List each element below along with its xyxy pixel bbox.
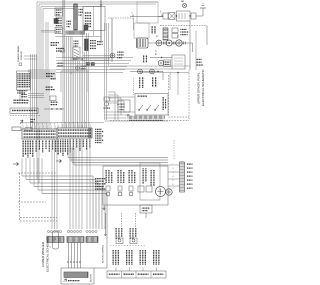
label left pair xyxy=(57,63,64,64)
svg-text:TRANSFORMER: TRANSFORMER xyxy=(17,45,20,62)
component dark U2 xyxy=(84,25,88,30)
svg-text:5: 5 xyxy=(73,123,74,125)
component cluster D3 labels xyxy=(129,170,130,183)
svg-text:MOTOR CONTROL: MOTOR CONTROL xyxy=(103,244,105,263)
component dark small U1 side xyxy=(54,19,58,24)
svg-text:M: M xyxy=(156,36,158,38)
terminal box S3 xyxy=(191,13,196,19)
connector hatch under K2 xyxy=(72,58,82,61)
start capacitor canister xyxy=(137,38,149,48)
arrow symbol P3 xyxy=(13,162,19,165)
timer pin list U2 xyxy=(84,12,91,13)
mark small xyxy=(19,63,22,66)
component inline small xyxy=(60,49,64,52)
labels inner box xyxy=(143,168,144,184)
svg-text:1: 1 xyxy=(57,123,58,125)
bracket connector xyxy=(53,231,59,249)
wires B2 to motor xyxy=(68,243,70,269)
wire verticals right of U2 xyxy=(108,23,110,66)
control box A1 xyxy=(135,94,168,116)
wire lattice lower horizontals xyxy=(105,112,169,121)
svg-text:5: 5 xyxy=(38,124,39,126)
pin labels J8 right xyxy=(187,164,193,165)
svg-text:120/240V: 120/240V xyxy=(21,50,23,60)
label rows above relay box xyxy=(13,100,29,101)
relay box K1 dotted xyxy=(137,2,158,23)
wire loop top 2 left leg xyxy=(38,4,40,183)
terminal drop lines xyxy=(115,268,117,272)
motor box M1 dotted xyxy=(134,23,149,38)
pin circles B1 xyxy=(47,230,49,232)
motor control wire xyxy=(94,194,107,269)
wire vertical pair x104 xyxy=(104,23,106,58)
label cluster left mid B xyxy=(45,87,53,88)
label right of DS3 xyxy=(81,66,87,67)
text block right bus xyxy=(95,178,106,179)
wire mid horizontal bus xyxy=(83,55,110,57)
wire dashed drops xyxy=(122,213,136,228)
sensor S5 xyxy=(116,238,123,244)
pin tick K1 right xyxy=(161,15,163,17)
wire mid horizontals long xyxy=(56,57,133,59)
svg-text:4: 4 xyxy=(69,123,70,125)
svg-text:3: 3 xyxy=(65,123,66,125)
svg-text:2: 2 xyxy=(173,168,174,170)
svg-text:5: 5 xyxy=(173,180,174,182)
pin labels below P4 dark xyxy=(58,139,59,155)
component cluster D1 labels xyxy=(106,170,107,183)
arrow symbol P4 xyxy=(56,159,62,162)
svg-text:3: 3 xyxy=(30,124,31,126)
label right of B5 xyxy=(196,59,202,60)
pin circles B3 xyxy=(86,230,88,232)
wire dashed y173 xyxy=(18,172,57,174)
marks right of arrow xyxy=(30,119,35,120)
small comps inner xyxy=(138,186,144,192)
pin labels below P3 dark xyxy=(23,140,24,157)
label rows x50 y42 xyxy=(50,42,59,43)
wire junction row xyxy=(44,108,64,110)
lamp L1 xyxy=(138,69,143,74)
relay K2 contacts xyxy=(73,47,80,58)
svg-text:7: 7 xyxy=(81,123,82,125)
inline connector c xyxy=(184,42,186,45)
svg-text:FAN: FAN xyxy=(181,0,185,3)
svg-text:2: 2 xyxy=(61,123,62,125)
labels mid cols xyxy=(143,55,144,63)
svg-text:9: 9 xyxy=(54,124,55,126)
pin circles B2 xyxy=(67,230,69,232)
dryer connector J8 strip xyxy=(180,162,185,192)
wire vertical x101 main xyxy=(100,0,102,43)
wire loop top 4 left leg xyxy=(42,9,44,130)
label top right of U2 xyxy=(79,9,84,10)
wire bus upper to dryer box xyxy=(68,157,168,159)
timer pin list U1 xyxy=(55,18,62,19)
wire loop top 4 xyxy=(43,8,75,10)
hatch end of strip P4 xyxy=(89,128,92,138)
junction blobs xyxy=(86,63,90,66)
svg-text:ELECTRICAL SCHEMATIC: ELECTRICAL SCHEMATIC xyxy=(201,68,205,106)
connector block bottom xyxy=(66,31,85,35)
svg-text:F: F xyxy=(160,11,161,13)
component D3 xyxy=(129,186,133,191)
wire J8 links xyxy=(168,165,180,186)
labels under lamps xyxy=(139,77,140,88)
wire loop top 3 left leg xyxy=(40,7,42,130)
legend lower rows xyxy=(17,90,27,91)
label 1K xyxy=(67,21,72,22)
wire y16.5 through K1 xyxy=(130,16,163,18)
svg-text:8: 8 xyxy=(50,124,51,126)
timer box U2 xyxy=(83,7,105,31)
label pair M1 xyxy=(152,26,153,34)
label in A1 right xyxy=(163,97,164,110)
wire vertical x207 xyxy=(206,26,208,46)
wire transformer links xyxy=(24,56,37,59)
wire cabinet top links xyxy=(140,73,189,96)
svg-text:6: 6 xyxy=(77,123,78,125)
sensor S6 xyxy=(130,238,137,244)
svg-text:6: 6 xyxy=(173,184,174,186)
wire left bundle inner xyxy=(44,70,46,129)
dryer section box xyxy=(103,166,168,205)
wire vertical x190 xyxy=(189,21,191,70)
wire dashed left edge xyxy=(19,173,21,221)
wire crossing h group A xyxy=(28,69,56,71)
arrow below dryer box xyxy=(103,206,106,210)
component circle right mid xyxy=(104,97,110,101)
wire y71.5 with lamps xyxy=(130,72,163,81)
wire crossing h group B xyxy=(28,93,44,95)
pin labels below P4 light xyxy=(73,139,74,150)
indicator lamp DS3 xyxy=(75,66,79,70)
cabinet dashed border right xyxy=(168,75,170,117)
timer box U1 xyxy=(55,8,63,16)
legend text block xyxy=(17,73,30,74)
svg-text:8: 8 xyxy=(85,123,86,125)
inline connector a xyxy=(164,42,166,45)
antenna symbol xyxy=(200,4,206,9)
motor winding M2 xyxy=(156,40,162,46)
wire dashed x133.5 down xyxy=(133,78,135,95)
dash marks under sensors xyxy=(110,245,146,247)
wire loop top 3 xyxy=(41,6,101,8)
svg-text:2: 2 xyxy=(26,124,27,126)
wire into control left xyxy=(108,97,135,103)
wire corner lattice xyxy=(108,92,124,120)
cabinet dashed bottom xyxy=(110,120,189,122)
svg-text:6: 6 xyxy=(42,124,43,126)
fuse box F1 xyxy=(163,13,168,19)
wire box bottoms line xyxy=(55,36,101,38)
svg-text:BK-10: BK-10 xyxy=(156,50,158,55)
compressor relay label box xyxy=(10,108,38,114)
sensor S5 labels xyxy=(116,228,117,239)
component cluster D2 labels xyxy=(118,170,119,183)
svg-text:7: 7 xyxy=(173,188,174,190)
thermostat box S2 xyxy=(177,11,191,21)
legend block right of P4 xyxy=(95,129,102,130)
svg-text:7: 7 xyxy=(46,124,47,126)
component marks bottom left xyxy=(12,127,21,131)
wire vertical x196 xyxy=(195,31,197,70)
pin numbers above strip P3 xyxy=(22,126,24,130)
wire bundle to block B3 xyxy=(86,138,88,229)
wire horizontal dashed y18 xyxy=(108,17,134,19)
wire dashed under relay box xyxy=(10,115,40,117)
component D1 xyxy=(106,186,110,191)
wire horizontals y30-32 left xyxy=(41,31,56,33)
connector strip J1 xyxy=(85,39,89,51)
relay box TD xyxy=(164,60,171,67)
heater ladder R1 xyxy=(163,28,168,40)
wire vertical x133.5 xyxy=(133,18,135,30)
svg-text:1: 1 xyxy=(132,13,133,15)
pin circles above strip P4 xyxy=(57,125,59,129)
tiny labels under hatch xyxy=(129,120,163,121)
label cluster left mid A xyxy=(46,73,55,74)
wire dashed y25.5 xyxy=(160,25,207,27)
door switch box S4 xyxy=(118,100,130,112)
pin labels below P3 light xyxy=(36,140,37,152)
blower icon top xyxy=(182,3,186,7)
component small box mid xyxy=(50,96,56,101)
terminal hatch under A1 xyxy=(128,116,164,120)
box below dryer xyxy=(140,205,152,213)
svg-text:4: 4 xyxy=(34,124,35,126)
wire loop top 1 xyxy=(37,1,158,3)
wire vertical pair x104 lower xyxy=(105,58,107,120)
stacked boxes R2 xyxy=(172,28,178,33)
sensor S6 labels xyxy=(130,228,131,239)
switch X box S1 xyxy=(169,13,176,20)
drive motor circle xyxy=(156,187,166,197)
conn block B2 xyxy=(67,237,84,243)
connector ladder J2 xyxy=(74,4,77,30)
wire bundle strip P3 to block B1 xyxy=(51,139,53,229)
lamp L2 xyxy=(150,69,155,74)
component D2 xyxy=(118,186,122,191)
switch box U1B xyxy=(55,28,63,34)
lamp DS1 xyxy=(110,53,115,58)
motor label inside xyxy=(68,280,80,281)
wire bundle strip P4 to block B2 xyxy=(69,138,71,229)
timer motor box B5 xyxy=(172,55,185,69)
conn block B3 xyxy=(86,237,98,243)
svg-text:4: 4 xyxy=(50,247,52,249)
terminal group T1 labels xyxy=(113,250,114,265)
pin labels J1 xyxy=(90,40,97,41)
pin tick K1 left xyxy=(132,15,134,17)
wire dashed lower pair xyxy=(20,218,57,222)
motor hatch strip xyxy=(64,272,88,278)
switch contacts in A1 xyxy=(139,105,159,110)
wire bundle mid to strip P4 xyxy=(62,0,64,128)
wire bus lower group xyxy=(22,175,93,177)
wire loop top 2 xyxy=(39,3,156,5)
wire right top row xyxy=(158,8,203,17)
wire bus right legs down xyxy=(92,176,94,229)
wire dashed x174 xyxy=(173,140,175,160)
circle near J8 xyxy=(166,189,172,195)
wire verticals x46 x48 xyxy=(46,22,48,70)
legend box xyxy=(17,71,31,90)
connector strip P4 xyxy=(57,128,92,138)
pin labels J1 right xyxy=(97,41,103,42)
wire legend down xyxy=(20,90,22,100)
svg-text:3: 3 xyxy=(173,172,174,174)
conn block B1 xyxy=(47,237,64,243)
wire left bundle to connector P3 xyxy=(30,54,32,129)
svg-text:1: 1 xyxy=(22,124,23,126)
arrow symbol lm xyxy=(20,120,23,124)
arrow in motor box xyxy=(64,279,67,282)
svg-text:9: 9 xyxy=(89,123,90,125)
motor winding M4 xyxy=(176,40,182,46)
dryer inner box xyxy=(140,163,160,200)
label under legend xyxy=(21,94,27,95)
wire horizontal y122.8 xyxy=(20,122,104,124)
label block right of R2 xyxy=(181,29,187,30)
wire vertical x112 xyxy=(111,18,113,62)
wire bottom rows top section xyxy=(110,66,190,69)
wire double vertical xyxy=(62,0,64,58)
label right of DS1 xyxy=(117,52,124,53)
svg-text:MOTOR: MOTOR xyxy=(91,274,93,282)
motor winding M3 xyxy=(166,40,172,46)
connector strip P3 xyxy=(22,129,57,139)
wire motor row xyxy=(148,43,193,52)
wire loop top 1 left leg xyxy=(36,2,38,179)
svg-text:4: 4 xyxy=(173,176,174,178)
label BK-WH xyxy=(56,48,64,49)
terminal box row xyxy=(107,271,166,278)
label above K2 xyxy=(74,41,79,42)
box middle tall xyxy=(61,71,88,92)
motor box M5 xyxy=(61,268,94,284)
junction node A xyxy=(161,57,162,58)
wire left drop arrow xyxy=(104,213,107,236)
buzzer DS2 xyxy=(158,60,164,66)
wire dashed y202 xyxy=(18,201,46,203)
inline connector b xyxy=(174,42,176,45)
wire vertical x93.5 xyxy=(93,7,95,37)
